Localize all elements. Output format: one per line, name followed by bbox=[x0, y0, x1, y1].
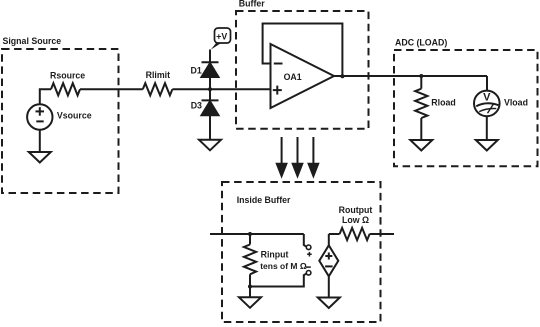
svg-text:Rsource: Rsource bbox=[50, 71, 85, 81]
svg-text:Vload: Vload bbox=[504, 98, 528, 108]
svg-text:OA1: OA1 bbox=[284, 72, 302, 82]
svg-text:ADC (LOAD): ADC (LOAD) bbox=[395, 37, 447, 47]
svg-text:Routput: Routput bbox=[339, 205, 373, 215]
svg-text:Vsource: Vsource bbox=[57, 110, 92, 120]
svg-text:Low Ω: Low Ω bbox=[342, 215, 369, 225]
svg-text:tens of M Ω: tens of M Ω bbox=[260, 261, 307, 271]
svg-text:Buffer: Buffer bbox=[239, 0, 265, 9]
svg-text:V: V bbox=[483, 91, 491, 103]
svg-text:Signal Source: Signal Source bbox=[3, 36, 62, 46]
svg-text:Inside Buffer: Inside Buffer bbox=[237, 195, 291, 205]
svg-text:Rinput: Rinput bbox=[261, 249, 289, 259]
svg-text:Rlimit: Rlimit bbox=[146, 70, 171, 80]
svg-text:D1: D1 bbox=[191, 65, 202, 75]
svg-text:+V: +V bbox=[216, 32, 227, 42]
svg-text:Rload: Rload bbox=[431, 98, 455, 108]
svg-text:D3: D3 bbox=[191, 101, 202, 111]
